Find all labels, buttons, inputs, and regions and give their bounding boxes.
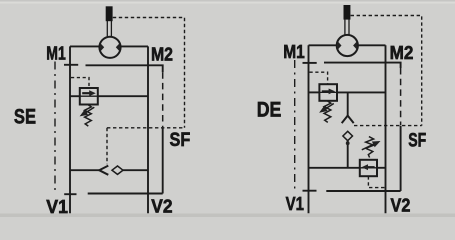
relief valve RV2 square: [319, 84, 337, 101]
wire: DE SF riser dashed part: [400, 68, 402, 125]
svg-text:V2: V2: [391, 196, 411, 216]
wire: DE center vertical lower: [347, 141, 349, 168]
check valve CV2 ball diamond: [343, 131, 353, 140]
pilot line SF horizontal dashed: [354, 125, 422, 127]
relief valve RV3 arrow (points left): [367, 166, 375, 168]
wire: SE bottom bus: [88, 193, 163, 195]
svg-text:M1: M1: [283, 42, 305, 62]
svg-text:M2: M2: [390, 43, 414, 63]
wire: RV1 line right: [98, 95, 148, 97]
wire: DE bottom bus: [326, 190, 400, 192]
pilot line dashed from handle to right border: [113, 18, 185, 128]
relief valve RV1 pilot dashes: [71, 78, 89, 88]
adjust arrow of RV3: [362, 144, 374, 150]
spring of RV1: [85, 105, 92, 127]
relief valve RV1 arrow: [82, 92, 90, 94]
adjust arrow of RV2: [324, 104, 334, 111]
shaft black handle: [344, 5, 351, 20]
port M1 tick: [303, 62, 317, 64]
svg-text:V2: V2: [151, 196, 172, 216]
enclosure dash-dot left border SE: [54, 62, 56, 195]
pilot line to check valve dashed: [106, 128, 108, 164]
motor M1 circle (hand pump): [99, 37, 120, 58]
shaft double line: [106, 21, 108, 37]
relief valve RV2 through line: [319, 91, 337, 93]
wire: DE top bus right segment: [358, 44, 386, 46]
relief valve RV2 pilot dashes: [310, 72, 328, 84]
wire: RV2 line left: [309, 91, 320, 93]
pilot line SF horizontal dashed: [107, 127, 185, 129]
wire: check valve line left: [70, 169, 99, 171]
wire: RV3 line left: [309, 167, 360, 169]
spring of RV2: [324, 101, 331, 123]
port M1 tick: [64, 64, 78, 66]
wire: DE second bus: [324, 63, 401, 68]
shaft black handle: [106, 6, 113, 21]
wire: SE second bus: [86, 65, 163, 72]
scan artifact top edge: [0, 0, 455, 2]
wire: DE right vertical line M2-V2: [385, 45, 387, 213]
svg-text:M1: M1: [46, 44, 66, 64]
check valve CV1 ball diamond: [112, 166, 123, 174]
motor right triangle: [353, 41, 357, 49]
relief valve RV2 arrow: [322, 90, 330, 92]
shaft double line: [344, 19, 346, 35]
enclosure dash-dot left border DE: [294, 60, 296, 190]
spring of RV3: [366, 137, 374, 158]
svg-text:V1: V1: [286, 194, 304, 214]
relief valve RV1 through line: [80, 95, 98, 97]
wire: DE SF riser solid part: [400, 126, 402, 191]
motor M2 circle (hand pump): [337, 35, 358, 56]
svg-text:SF: SF: [170, 129, 191, 151]
wire: DE center vertical upper: [347, 92, 349, 115]
pilot line dashed from handle to right border: [351, 16, 422, 126]
motor left triangle: [338, 41, 342, 49]
adjust arrow of RV1: [84, 107, 94, 114]
wire: RV1 line left: [70, 95, 80, 97]
svg-text:V1: V1: [46, 197, 68, 217]
check valve CV2 seat: [342, 116, 354, 124]
check valve CV1 seat: [99, 166, 108, 175]
wire: RV2 line right: [337, 91, 386, 93]
wire: SE top bus right segment: [121, 45, 148, 47]
svg-text:M2: M2: [151, 44, 173, 64]
relief valve RV1 square: [80, 88, 98, 105]
motor left triangle: [100, 43, 104, 51]
junction dot: [346, 141, 350, 145]
wire: SE top bus left segment: [70, 45, 99, 47]
svg-text:SE: SE: [14, 105, 36, 129]
wire: SE right vertical line M2-V2: [147, 46, 149, 213]
wire: SF riser solid part: [162, 128, 164, 194]
relief valve RV3 square: [360, 160, 377, 176]
scan artifact bottom edge: [0, 214, 455, 218]
wire: DE top bus left segment: [309, 44, 337, 46]
port V1 tick: [64, 193, 76, 195]
wire: SE left vertical line M1-V1: [69, 46, 71, 213]
relief valve RV3 through line: [360, 167, 377, 169]
wire: DE left vertical line M1-V1: [308, 45, 310, 213]
pilot line RV3 dashed: [368, 176, 385, 187]
wire: RV3 line right: [377, 167, 386, 169]
motor right triangle: [116, 43, 120, 51]
svg-text:SF: SF: [408, 129, 426, 151]
svg-text:DE: DE: [257, 97, 282, 121]
port V1 tick: [303, 190, 317, 192]
wire: SF riser dashed part: [162, 72, 164, 127]
wire: check valve line right: [123, 169, 148, 171]
